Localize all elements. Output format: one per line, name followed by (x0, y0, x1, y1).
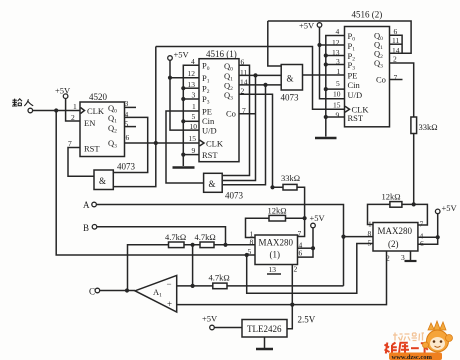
svg-text:13: 13 (269, 265, 277, 274)
svg-text:4: 4 (336, 27, 340, 36)
svg-text:8: 8 (250, 238, 254, 247)
svg-text:6: 6 (126, 133, 130, 142)
svg-text:(2): (2) (388, 239, 399, 249)
svg-text:EN: EN (84, 118, 95, 128)
svg-text:2.5V: 2.5V (298, 315, 316, 325)
svg-text:7: 7 (68, 139, 72, 148)
svg-text:RST: RST (348, 113, 364, 123)
svg-text:5: 5 (192, 112, 196, 121)
svg-text:A: A (83, 200, 90, 210)
svg-text:Cin: Cin (348, 80, 361, 90)
svg-text:+5V: +5V (310, 213, 326, 223)
svg-text:9: 9 (192, 146, 196, 155)
svg-text:10: 10 (333, 90, 341, 99)
svg-text:Co: Co (226, 109, 236, 119)
svg-text:+: + (167, 299, 172, 309)
svg-text:MAX280: MAX280 (259, 238, 294, 248)
svg-text:9: 9 (336, 111, 340, 120)
svg-text:12: 12 (188, 69, 196, 78)
svg-text:6: 6 (299, 249, 303, 258)
svg-text:1: 1 (192, 102, 196, 111)
svg-text:4.7kΩ: 4.7kΩ (195, 232, 216, 242)
svg-text:RST: RST (84, 144, 100, 154)
svg-text:5: 5 (336, 79, 340, 88)
svg-text:33kΩ: 33kΩ (281, 173, 300, 183)
svg-text:B: B (83, 223, 89, 233)
svg-text:3: 3 (401, 253, 405, 262)
svg-text:C: C (89, 287, 95, 297)
svg-text:www.dzsc.com: www.dzsc.com (392, 354, 433, 360)
svg-text:+5V: +5V (299, 21, 315, 31)
svg-text:12kΩ: 12kΩ (382, 192, 401, 202)
svg-text:&: & (209, 179, 216, 189)
svg-text:4516 (1): 4516 (1) (206, 49, 237, 59)
svg-text:+5V: +5V (55, 86, 71, 96)
svg-text:RST: RST (202, 150, 218, 160)
svg-text:8: 8 (368, 229, 372, 238)
svg-text:+5V: +5V (442, 203, 458, 213)
svg-text:−: − (167, 279, 172, 289)
svg-text:1: 1 (73, 102, 77, 111)
svg-text:CLK: CLK (87, 106, 105, 116)
svg-text:2: 2 (386, 254, 390, 263)
svg-text:7: 7 (394, 73, 398, 82)
svg-text:U/D: U/D (348, 90, 363, 100)
svg-text:1: 1 (337, 67, 341, 76)
svg-text:4073: 4073 (225, 191, 244, 201)
svg-text:4516 (2): 4516 (2) (352, 10, 383, 20)
svg-text:4073: 4073 (117, 162, 136, 172)
svg-text:33kΩ: 33kΩ (419, 122, 438, 132)
svg-text:Co: Co (376, 75, 386, 85)
svg-text:CLK: CLK (206, 139, 224, 149)
svg-text:MAX280: MAX280 (378, 226, 413, 236)
svg-text:4.7kΩ: 4.7kΩ (165, 232, 186, 242)
svg-text:2: 2 (294, 265, 298, 274)
svg-text:4.7kΩ: 4.7kΩ (209, 273, 230, 283)
svg-text:15: 15 (189, 134, 197, 143)
svg-text:+5V: +5V (202, 314, 218, 324)
svg-text:4520: 4520 (89, 92, 108, 102)
svg-text:15: 15 (333, 101, 341, 110)
svg-text:Cin: Cin (202, 116, 215, 126)
svg-text:+5V: +5V (174, 50, 190, 60)
svg-text:U/D: U/D (202, 126, 217, 136)
svg-text:7: 7 (420, 220, 424, 229)
svg-text:PE: PE (202, 107, 212, 117)
svg-text:4073: 4073 (281, 93, 300, 103)
svg-text:5: 5 (248, 247, 252, 256)
svg-text:PE: PE (348, 71, 358, 81)
svg-text:TLE2426: TLE2426 (247, 324, 282, 334)
svg-text:&: & (99, 176, 106, 186)
svg-text:7: 7 (298, 229, 302, 238)
svg-text:5: 5 (368, 239, 372, 248)
svg-text:&: & (287, 74, 294, 84)
svg-text:12kΩ: 12kΩ (268, 206, 287, 216)
svg-text:(1): (1) (270, 250, 281, 260)
svg-text:3: 3 (192, 91, 196, 100)
svg-text:2: 2 (393, 55, 397, 64)
